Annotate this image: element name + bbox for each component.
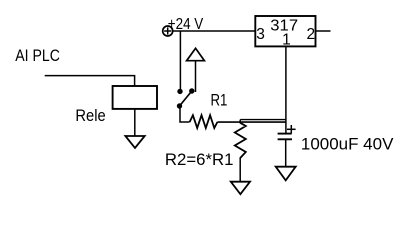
ground under R2 <box>231 182 250 195</box>
switch arrow (up connector) <box>187 48 205 92</box>
switch common dot <box>177 103 182 108</box>
relay K1 coil box <box>113 86 157 109</box>
svg-text:Rele: Rele <box>75 107 105 125</box>
wire R1 to capacitor node <box>217 121 286 123</box>
switch contact dot left <box>177 89 182 94</box>
switch contact dot right <box>189 88 194 93</box>
svg-text:1000uF 40V: 1000uF 40V <box>301 136 394 154</box>
capacitor C1 plus sign <box>287 125 296 134</box>
svg-text:1: 1 <box>282 32 291 49</box>
svg-text:R1: R1 <box>211 90 228 109</box>
ground under capacitor <box>276 167 296 181</box>
resistor R1 zigzag <box>190 115 218 128</box>
capacitor C1 bottom plate <box>278 138 292 140</box>
svg-text:3: 3 <box>256 26 265 43</box>
wire pin 2 output stub <box>316 30 331 32</box>
capacitor C1 top plate <box>278 133 292 135</box>
svg-text:R2=6*R1: R2=6*R1 <box>165 150 234 169</box>
wire +24V rail to regulator pin 3 <box>173 30 256 32</box>
wire AI PLC to relay <box>45 76 135 87</box>
wire relay to ground <box>134 109 136 136</box>
wire R2 stub <box>239 120 241 124</box>
wire pin 1 down to capacitor <box>285 46 287 133</box>
wire capacitor to ground <box>285 139 287 166</box>
regulator U1 LM317 box <box>255 16 315 46</box>
svg-text:2: 2 <box>307 26 316 43</box>
svg-text:AI PLC: AI PLC <box>15 46 60 65</box>
wire drop from rail to switch <box>179 31 181 90</box>
ground under relay <box>125 136 144 148</box>
wire upper junction R2 to node <box>240 119 286 121</box>
terminal +24V circle <box>163 26 173 36</box>
wire R2 to ground <box>239 158 241 182</box>
wire switch to R1 <box>180 107 190 122</box>
switch blade <box>180 91 192 106</box>
resistor R2 zigzag <box>235 123 246 158</box>
